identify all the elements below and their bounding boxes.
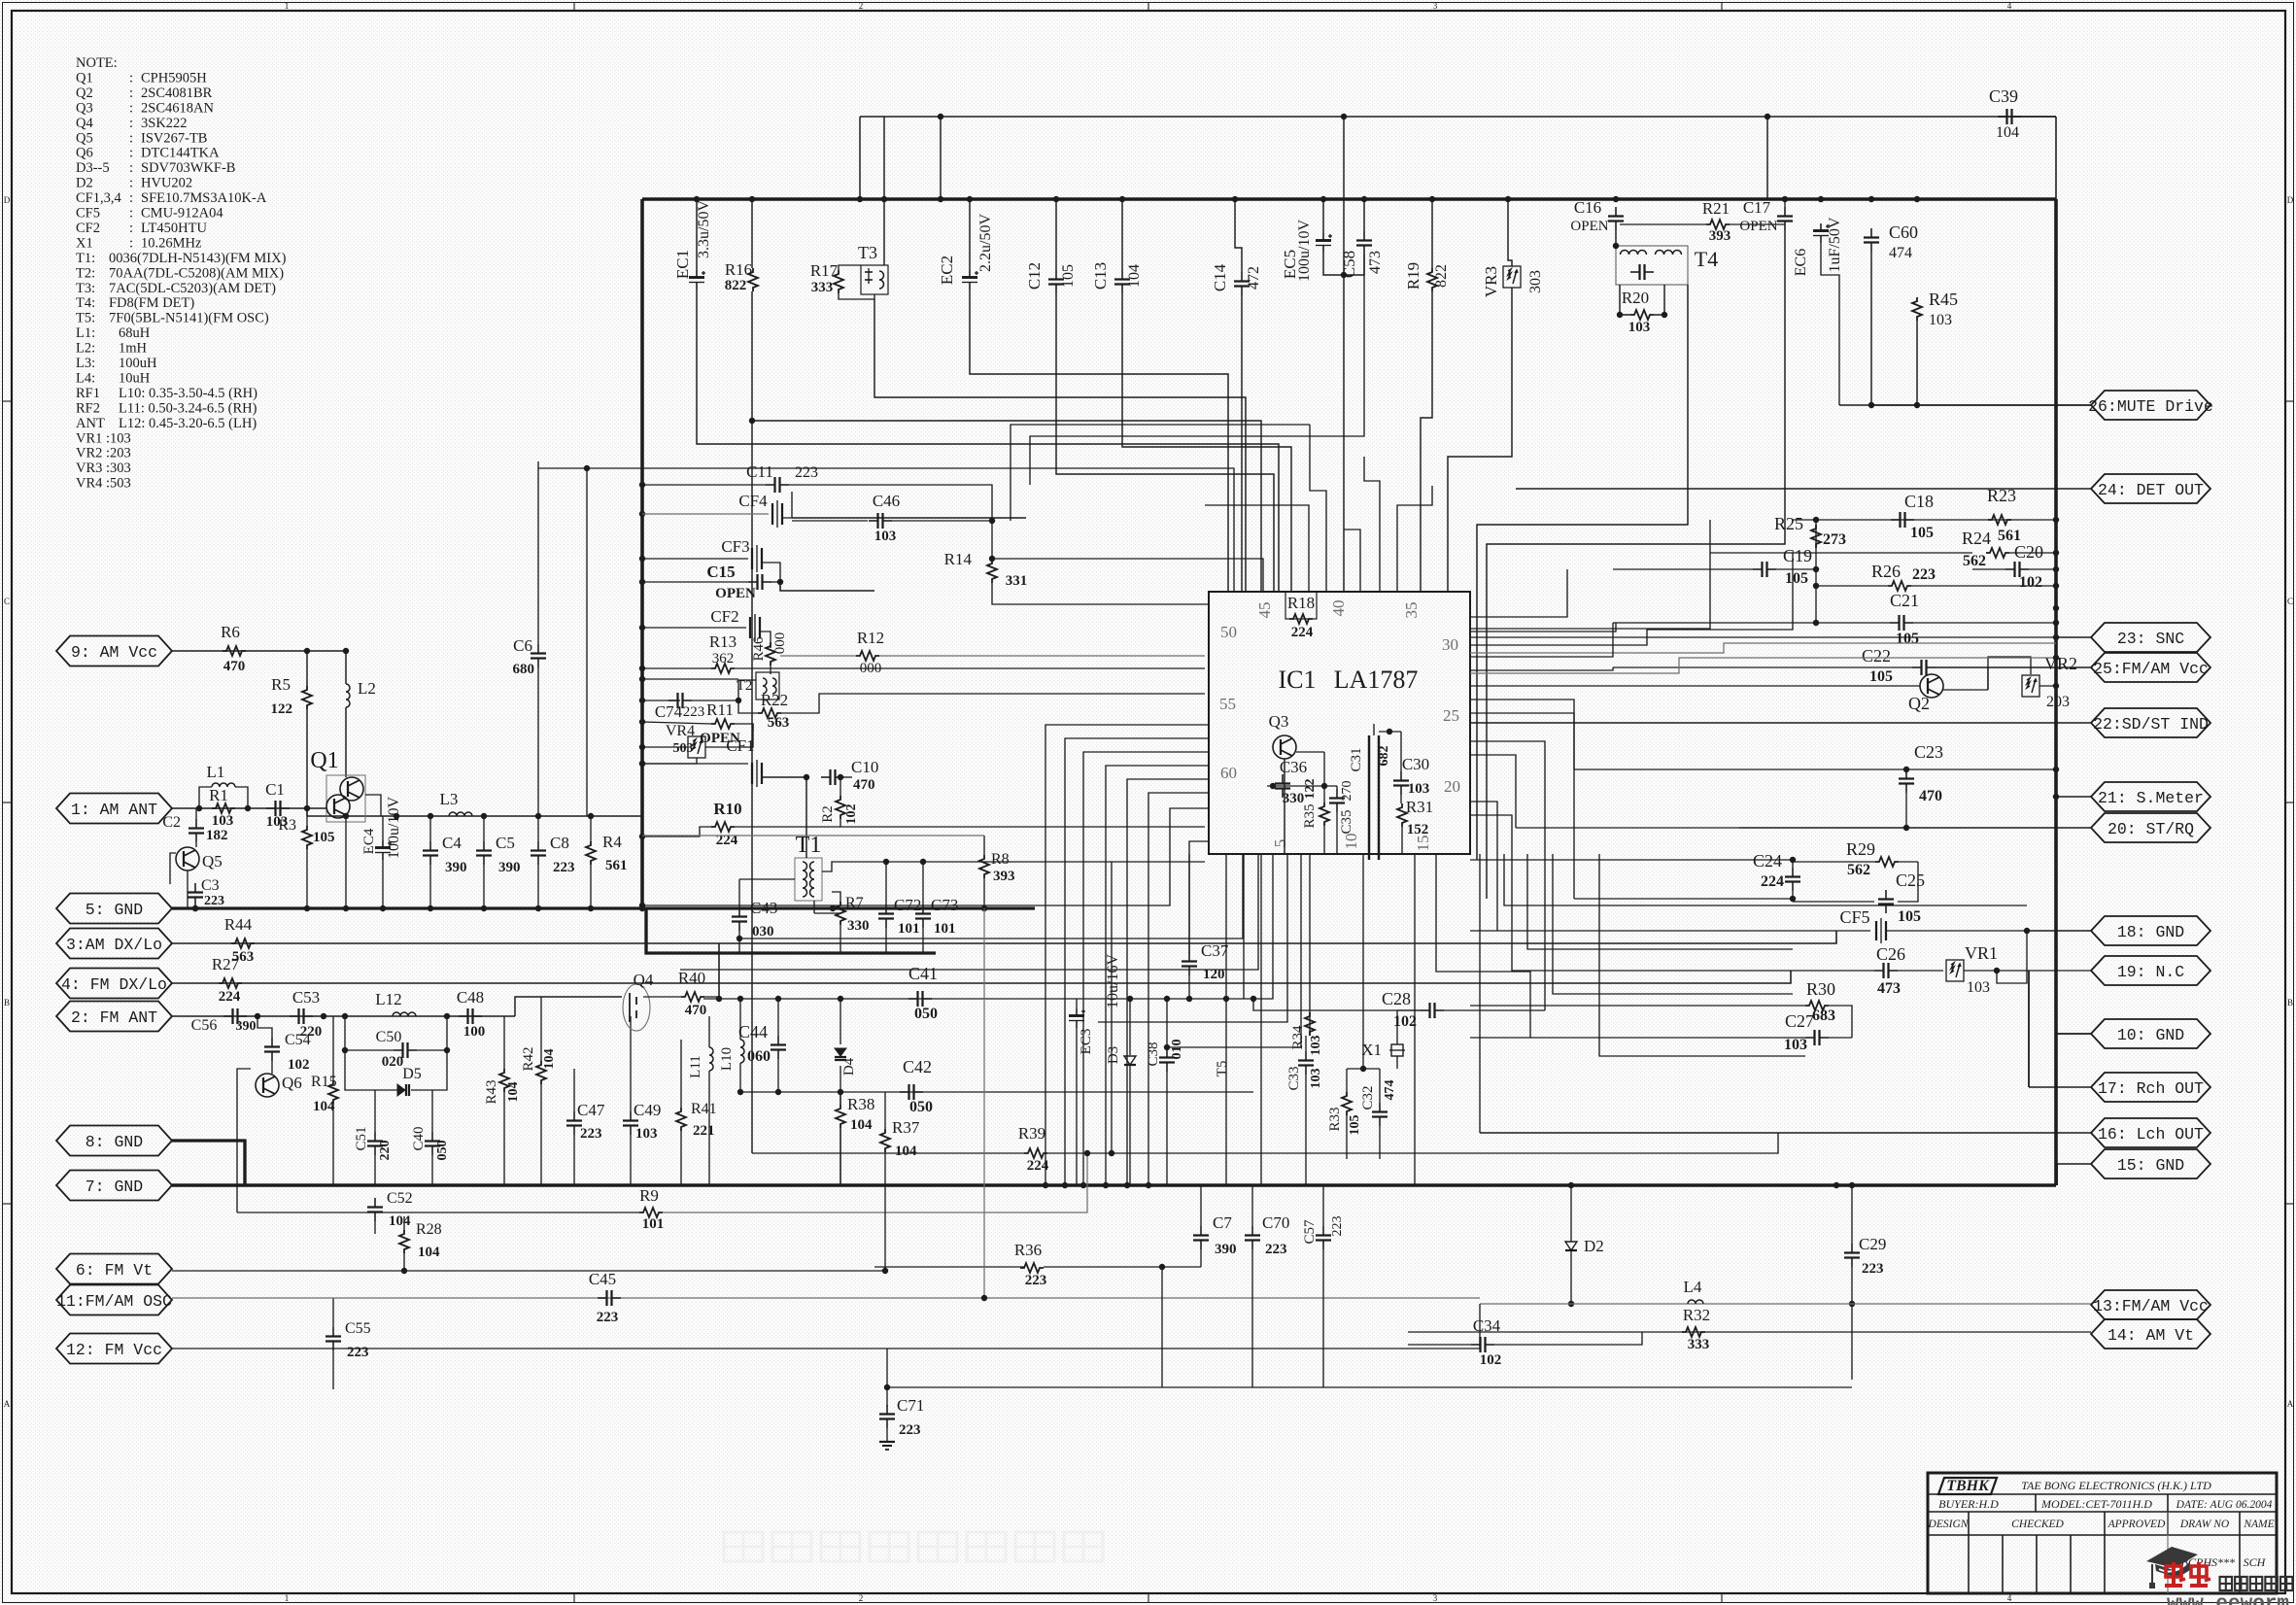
svg-text:3SK222: 3SK222 xyxy=(141,116,188,131)
wire 15:GND stub xyxy=(2057,1163,2091,1165)
transistor Q5 xyxy=(176,847,199,871)
svg-text:104: 104 xyxy=(506,1082,521,1103)
connector 19: N.C xyxy=(2091,956,2210,985)
wire 16:Lch row xyxy=(1480,1132,2091,1134)
svg-text:105: 105 xyxy=(313,830,335,845)
wire R19 down xyxy=(1421,291,1432,592)
wire IC bottom 1456 xyxy=(1414,854,1416,1185)
svg-text:050: 050 xyxy=(435,1141,450,1161)
wire L10 v xyxy=(739,999,741,1040)
svg-text:T5: T5 xyxy=(1215,1061,1230,1077)
svg-text:CF2: CF2 xyxy=(76,221,100,236)
svg-text:www.eeworm.com: www.eeworm.com xyxy=(2167,1593,2296,1605)
svg-text:5: GND: 5: GND xyxy=(86,901,144,919)
connector 12: FM Vcc xyxy=(56,1334,172,1364)
wire C33 v xyxy=(1305,1075,1307,1185)
junction xyxy=(1251,996,1256,1002)
wire C5 v xyxy=(483,816,485,841)
junction xyxy=(967,196,973,202)
svg-text::: : xyxy=(129,100,133,116)
connector 24: DET OUT xyxy=(2091,474,2210,503)
wire D4 v xyxy=(840,999,841,1044)
wire C12 lead xyxy=(1055,199,1057,270)
svg-text:R34: R34 xyxy=(1290,1025,1306,1050)
resistor R8 xyxy=(979,855,989,878)
svg-text:C32: C32 xyxy=(1360,1085,1376,1110)
transformer T2 xyxy=(756,672,779,700)
svg-text:Q6: Q6 xyxy=(282,1074,302,1092)
wire VR2 right xyxy=(2039,685,2056,687)
wire R37 v xyxy=(884,1092,886,1129)
junction xyxy=(196,805,202,811)
wire C35 v2 xyxy=(1336,812,1338,854)
title block grid xyxy=(1928,1473,2277,1593)
svg-text:100uH: 100uH xyxy=(119,356,157,371)
svg-text:L12: L12 xyxy=(375,990,401,1008)
capacitor C48 xyxy=(459,1015,468,1017)
wire R39 branch2 xyxy=(1112,1133,1778,1153)
junction xyxy=(1043,1182,1048,1188)
svg-text:103: 103 xyxy=(1929,312,1952,328)
svg-text:C48: C48 xyxy=(457,988,484,1007)
ceramic filter CF5 xyxy=(1875,921,1877,940)
svg-text:104: 104 xyxy=(389,1213,411,1229)
svg-text:103: 103 xyxy=(874,529,897,544)
svg-text:R38: R38 xyxy=(847,1095,874,1113)
wire D2 v2 xyxy=(1570,1250,1572,1304)
svg-text:220: 220 xyxy=(378,1141,393,1161)
wire bus vertical right (thick) xyxy=(2054,199,2058,1185)
junction xyxy=(535,813,541,819)
capacitor C18 xyxy=(1891,519,1901,521)
svg-text:223: 223 xyxy=(553,860,575,875)
connector 21: S.Meter xyxy=(2091,782,2210,811)
potentiometer VR3 xyxy=(1503,266,1521,288)
wire L10 v2 xyxy=(739,1063,741,1092)
wire IC bottom 1348 xyxy=(1309,854,1311,1012)
capacitor C51 xyxy=(374,1132,376,1142)
svg-text:C22: C22 xyxy=(1862,646,1891,666)
svg-text:683: 683 xyxy=(1812,1007,1835,1024)
wire IC right 777 xyxy=(1470,755,1516,828)
resistor R1 xyxy=(212,803,235,813)
potentiometer VR4 xyxy=(688,736,705,758)
svg-text:R1: R1 xyxy=(209,786,228,804)
svg-text:OPEN: OPEN xyxy=(1570,219,1608,234)
wire C15 right xyxy=(780,582,874,591)
wire IC top pin e xyxy=(1397,486,1432,592)
svg-text:105: 105 xyxy=(1910,525,1934,541)
junction xyxy=(394,813,399,819)
wire IC bottom L5 xyxy=(1098,854,1287,1022)
capacitor EC5 xyxy=(1322,233,1324,241)
svg-text:T1:: T1: xyxy=(76,251,95,266)
svg-text:473: 473 xyxy=(1367,251,1384,274)
svg-text:CF4: CF4 xyxy=(738,492,768,510)
wire 12:FM Vcc row xyxy=(172,1348,1480,1349)
wire IC right 763 xyxy=(1470,741,1545,1010)
wire bundle v1348 xyxy=(1309,425,1311,447)
svg-text:OPEN: OPEN xyxy=(1739,219,1777,234)
svg-text:Q6: Q6 xyxy=(76,146,93,161)
junction xyxy=(883,859,889,865)
junction xyxy=(639,511,645,517)
wire 24:DET row xyxy=(1516,488,2091,490)
wire C54-Q6 xyxy=(271,1061,273,1074)
svg-text:35: 35 xyxy=(1402,602,1421,619)
svg-text:X1: X1 xyxy=(76,235,93,251)
wire C39 cap lead xyxy=(1998,116,2056,118)
svg-text:2SC4081BR: 2SC4081BR xyxy=(141,85,213,101)
junction xyxy=(2053,683,2059,689)
junction xyxy=(1903,767,1909,772)
svg-text:MODEL:CET-7011H.D: MODEL:CET-7011H.D xyxy=(2040,1497,2152,1511)
junction xyxy=(1429,196,1435,202)
capacitor C10 xyxy=(821,776,831,778)
svg-text:R45: R45 xyxy=(1929,290,1958,309)
wire 2:FM ANT row xyxy=(172,1015,515,1017)
svg-text:2: 2 xyxy=(859,1,864,11)
capacitor EC3 xyxy=(1076,1008,1078,1016)
capacitor C43 xyxy=(738,907,740,917)
svg-text:103: 103 xyxy=(1309,1069,1323,1089)
svg-text:101: 101 xyxy=(642,1216,665,1232)
wire 19:N.C stub xyxy=(2027,970,2091,972)
wire CF2 out xyxy=(760,632,771,648)
svg-text:R6: R6 xyxy=(221,623,240,641)
svg-text:2: FM ANT: 2: FM ANT xyxy=(71,1008,157,1027)
svg-text:563: 563 xyxy=(768,715,790,731)
junction xyxy=(1270,783,1276,789)
wire IC left pin staircase xyxy=(1065,738,1209,1185)
wire C55 v2 xyxy=(332,1350,334,1389)
svg-text:D2: D2 xyxy=(1584,1237,1604,1255)
svg-text:BUYER:H.D: BUYER:H.D xyxy=(1938,1497,1999,1511)
resistor R45 xyxy=(1912,297,1922,321)
wire IC right 734 xyxy=(1470,713,1574,899)
capacitor C54 xyxy=(271,1038,273,1047)
wire C19 right xyxy=(1776,568,1816,570)
svg-text:C26: C26 xyxy=(1876,944,1905,964)
svg-text:Q1: Q1 xyxy=(76,70,93,85)
wire R24 row xyxy=(1710,552,1972,554)
junction xyxy=(428,905,433,911)
transistor Q3 xyxy=(1273,735,1296,759)
wire C22 right xyxy=(1936,666,2091,668)
wire X1 top xyxy=(1396,1010,1398,1038)
wire C72 v2 xyxy=(885,928,887,953)
capacitor C3 xyxy=(194,883,196,893)
diode D2 xyxy=(1565,1242,1577,1250)
wire IC right 825 xyxy=(1470,802,1497,931)
resistor R17 xyxy=(834,270,843,293)
junction xyxy=(2053,794,2059,800)
junction xyxy=(830,905,836,911)
svg-text:R39: R39 xyxy=(1018,1124,1045,1143)
wire C52 v2 xyxy=(374,1221,376,1234)
wire R43 v2 xyxy=(503,1092,505,1185)
capacitor C16 xyxy=(1615,207,1617,217)
resistor R38 xyxy=(836,1105,845,1128)
wire 14:AM Vt row xyxy=(1408,1331,2091,1333)
connector 26:MUTE Drive xyxy=(2091,391,2210,420)
junction xyxy=(2053,655,2059,661)
capacitor C12 xyxy=(1055,270,1057,280)
wire GND AM row (thick) xyxy=(172,906,1035,909)
svg-text:C15: C15 xyxy=(706,563,735,581)
wire IC bottom 1403 xyxy=(1362,854,1364,1059)
wire R10 row xyxy=(642,827,711,837)
resistor R34 xyxy=(1305,1012,1315,1036)
svg-text:C14: C14 xyxy=(1211,263,1229,291)
wire L11 v2 xyxy=(708,1071,710,1185)
wire Rch vertical xyxy=(2028,971,2030,1087)
wire C46 down xyxy=(991,521,993,559)
wire C15 out xyxy=(771,581,780,583)
connector 4: FM DX/Lo xyxy=(56,969,172,999)
capacitor C4 xyxy=(429,841,431,851)
wire R2 v xyxy=(840,777,841,796)
wire C57 v xyxy=(1322,1185,1324,1226)
wire C57 v2 xyxy=(1322,1249,1324,1387)
svg-text:R29: R29 xyxy=(1846,839,1875,859)
wire L2 v2 xyxy=(345,707,347,777)
connector 20: ST/RQ xyxy=(2091,813,2210,842)
junction xyxy=(775,996,781,1002)
wire IC bottom 1478 xyxy=(1436,854,1530,1038)
svg-text:C42: C42 xyxy=(903,1057,932,1076)
wire IC bottom L2 xyxy=(739,854,1243,939)
resistor R15 xyxy=(328,1080,338,1104)
wire R35 v2 xyxy=(1323,826,1325,854)
wire C19 row xyxy=(1613,568,1753,570)
capacitor C1 xyxy=(266,807,276,809)
wire R14 down xyxy=(992,583,1209,604)
svg-text:L4:: L4: xyxy=(76,370,95,386)
svg-text:103: 103 xyxy=(1309,1036,1323,1056)
svg-text:0036(7DLH-N5143)(FM MIX): 0036(7DLH-N5143)(FM MIX) xyxy=(109,251,287,266)
resistor R37 xyxy=(880,1129,890,1152)
wire R29 out xyxy=(1899,861,1918,863)
wire VR4 row xyxy=(642,746,688,748)
svg-text:C46: C46 xyxy=(873,492,900,510)
svg-text:C56: C56 xyxy=(191,1017,218,1034)
capacitor C38 xyxy=(1166,1048,1168,1058)
svg-text:C24: C24 xyxy=(1753,851,1782,871)
wire EC4 v xyxy=(382,816,384,840)
capacitor C44 xyxy=(777,1036,779,1045)
wire T1 top xyxy=(805,777,807,858)
svg-text:182: 182 xyxy=(206,828,228,843)
junction xyxy=(857,196,863,202)
svg-text:103: 103 xyxy=(1628,320,1651,335)
diode D4 varicap xyxy=(835,1048,846,1060)
svg-text:C23: C23 xyxy=(1914,742,1943,762)
svg-text:1: 1 xyxy=(285,1,290,11)
junction xyxy=(1568,1182,1574,1188)
svg-text:822: 822 xyxy=(1433,264,1450,288)
svg-text:680: 680 xyxy=(513,662,535,677)
wire 25 row xyxy=(1987,667,1989,690)
wire C23 v xyxy=(1905,793,1907,828)
wire R40 tap xyxy=(718,943,720,999)
svg-text:D3--5: D3--5 xyxy=(76,160,110,176)
junction xyxy=(639,761,645,767)
capacitor EC4 xyxy=(382,840,384,848)
svg-text:000: 000 xyxy=(772,632,788,655)
svg-text:ISV267-TB: ISV267-TB xyxy=(141,130,207,146)
junction xyxy=(639,698,645,703)
resistor R31 xyxy=(1397,803,1407,827)
wire R11 row xyxy=(642,722,711,724)
capacitor C27 xyxy=(1805,1037,1815,1039)
capacitor C72 xyxy=(885,905,887,914)
svg-text:390: 390 xyxy=(1215,1242,1237,1257)
svg-text:HVU202: HVU202 xyxy=(141,176,192,191)
wire Q4 row xyxy=(515,997,622,1016)
svg-text:000: 000 xyxy=(860,661,882,676)
wire C41 row xyxy=(703,998,1253,1000)
svg-text:T1: T1 xyxy=(796,833,822,858)
svg-text:NOTE:: NOTE: xyxy=(76,55,118,71)
wire CF3 out xyxy=(762,563,780,582)
wire R13 row xyxy=(642,667,711,669)
svg-text:223: 223 xyxy=(1330,1216,1345,1237)
wire R15 v2 xyxy=(332,1104,334,1185)
wire IC bottom L6 xyxy=(1167,854,1301,1047)
svg-text:270: 270 xyxy=(1340,781,1354,802)
svg-text:470: 470 xyxy=(853,777,875,793)
svg-text:122: 122 xyxy=(271,701,293,717)
faint watermark echo xyxy=(724,1532,1103,1561)
junction xyxy=(1914,402,1920,408)
wire stair rb1 xyxy=(1504,854,2027,905)
junction xyxy=(1164,996,1170,1002)
svg-text:223: 223 xyxy=(597,1310,619,1325)
svg-text:060: 060 xyxy=(747,1048,771,1065)
connector 7: GND xyxy=(56,1171,172,1201)
wire C43 link xyxy=(739,878,795,880)
resistor R29 xyxy=(1875,857,1899,867)
junction xyxy=(1232,196,1238,202)
wire R41 v xyxy=(680,1040,682,1108)
svg-text:C40: C40 xyxy=(411,1126,427,1150)
svg-text:50: 50 xyxy=(1220,623,1237,641)
wire C42 row xyxy=(740,1091,1253,1093)
svg-text:2SC4618AN: 2SC4618AN xyxy=(141,100,214,116)
wire CF4 out xyxy=(782,492,792,518)
svg-text:104: 104 xyxy=(850,1117,873,1133)
svg-text:C53: C53 xyxy=(292,988,320,1007)
svg-text:103: 103 xyxy=(212,813,234,829)
svg-text:R33: R33 xyxy=(1327,1107,1343,1131)
wire R8 row xyxy=(642,835,984,837)
svg-text:474: 474 xyxy=(1383,1080,1397,1101)
capacitor C39 xyxy=(1998,116,2007,118)
svg-text:104: 104 xyxy=(542,1049,557,1070)
connector 17: Rch OUT xyxy=(2091,1073,2210,1102)
svg-text:L2:: L2: xyxy=(76,341,95,357)
junction xyxy=(2053,566,2059,572)
wire 21:S.Meter row xyxy=(2056,796,2091,798)
svg-text:R12: R12 xyxy=(857,629,884,647)
svg-text:EC2: EC2 xyxy=(938,256,956,285)
wire R39 row xyxy=(752,1152,1024,1154)
svg-text:R14: R14 xyxy=(944,550,973,568)
junction xyxy=(775,1089,781,1095)
svg-text:T4: T4 xyxy=(1695,247,1718,271)
svg-text:R46: R46 xyxy=(751,636,767,662)
junction xyxy=(588,813,594,819)
wire C21 row xyxy=(1613,622,1890,624)
svg-text:R19: R19 xyxy=(1404,262,1422,290)
svg-text:C10: C10 xyxy=(851,758,878,776)
junction xyxy=(716,996,722,1002)
junction xyxy=(1321,783,1327,789)
ground xyxy=(879,1441,895,1443)
connector 22:SD/ST IND xyxy=(2091,708,2210,737)
wire IC bottom 1262 xyxy=(1225,854,1227,999)
wire C47 v xyxy=(573,1069,575,1111)
wire IC top pin c xyxy=(1364,457,1380,592)
capacitor C6 xyxy=(537,644,539,654)
wire R33C32 top xyxy=(1347,1068,1380,1070)
wire L3 row xyxy=(307,815,642,817)
svg-text:24: DET OUT: 24: DET OUT xyxy=(2098,481,2204,499)
wire C70 v2 xyxy=(1251,1249,1253,1387)
junction xyxy=(1186,996,1192,1002)
svg-text:DTC144TKA: DTC144TKA xyxy=(141,146,220,161)
svg-text:26:MUTE Drive: 26:MUTE Drive xyxy=(2088,397,2213,416)
svg-text:223: 223 xyxy=(899,1422,921,1438)
junction xyxy=(1124,1182,1130,1188)
wire EC6 down xyxy=(1821,243,1839,405)
svg-text:CF2: CF2 xyxy=(710,607,738,626)
svg-text:R26: R26 xyxy=(1871,562,1901,581)
svg-text:45: 45 xyxy=(1255,602,1274,619)
potentiometer VR1 xyxy=(1946,960,1964,981)
wire VR4 tap xyxy=(642,758,697,764)
svg-text:390: 390 xyxy=(236,1019,257,1034)
wire EC1 lead xyxy=(696,199,698,270)
svg-text:T4:: T4: xyxy=(76,295,95,311)
wire C14 down xyxy=(1241,295,1243,592)
wire T2 in xyxy=(738,680,756,700)
wire IC right 839 xyxy=(1470,815,1700,971)
capacitor C22 xyxy=(1912,666,1922,668)
svg-text:503: 503 xyxy=(673,741,694,756)
svg-text:R35: R35 xyxy=(1302,803,1318,828)
wire C35 v xyxy=(1336,786,1338,789)
wire VR4 out xyxy=(705,724,753,747)
svg-text:390: 390 xyxy=(498,860,521,875)
wire IC bottom 1280 xyxy=(1243,854,1245,999)
resistor R33 xyxy=(1342,1092,1352,1115)
junction xyxy=(304,805,310,811)
wire top C39 row xyxy=(860,116,2056,118)
svg-text:R22: R22 xyxy=(761,691,788,709)
capacitor C71 xyxy=(886,1405,888,1415)
wire C55 v xyxy=(332,1298,334,1327)
svg-text:100: 100 xyxy=(463,1024,486,1040)
junction xyxy=(304,905,310,911)
svg-text:R43: R43 xyxy=(484,1079,499,1104)
wire C6 top xyxy=(538,468,1234,592)
wire EC2 lead xyxy=(969,199,971,270)
capacitor C50 xyxy=(394,1049,403,1051)
wire 6:FM Vt row xyxy=(172,1270,885,1272)
svg-text:223: 223 xyxy=(580,1126,602,1142)
